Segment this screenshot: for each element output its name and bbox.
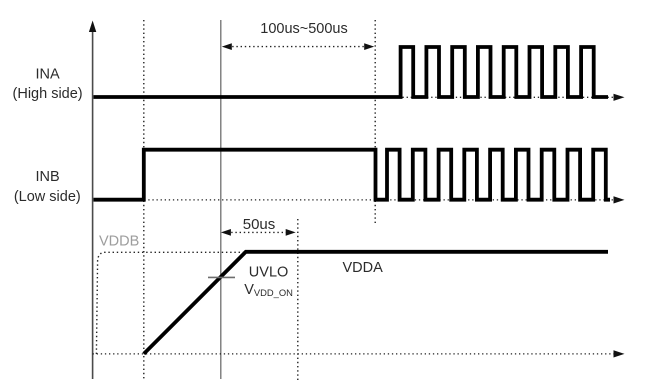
svg-text:100us~500us: 100us~500us: [260, 21, 347, 37]
svg-text:VVDD_ON: VVDD_ON: [244, 282, 293, 298]
svg-text:UVLO: UVLO: [249, 264, 288, 280]
INA baseline (dotted) with right arrow: [95, 94, 625, 101]
svg-text:VDDB: VDDB: [99, 234, 139, 250]
INB baseline (dotted) with right arrow: [95, 196, 625, 203]
INB waveform: [94, 150, 611, 200]
svg-text:INB: INB: [36, 169, 60, 185]
time gridline t2 (dotted, PWM start): [374, 20, 376, 224]
svg-text:VDDA: VDDA: [343, 260, 384, 276]
span arrow 50us (dotted, double-headed): [221, 229, 296, 236]
svg-text:INA: INA: [36, 67, 61, 83]
svg-text:(Low side): (Low side): [14, 189, 81, 205]
INA waveform: [94, 47, 609, 97]
time gridline t1 (thin solid): [220, 20, 222, 379]
svg-text:50us: 50us: [243, 216, 276, 233]
span arrow 100us~500us (dotted, double-headed): [222, 43, 374, 50]
VDDA waveform (ramp + flat): [144, 252, 608, 354]
time gridline t0 (dotted, INB rise / ramp start): [143, 20, 145, 379]
VDDB trace (dotted rise + level): [96, 252, 607, 354]
y-axis: [89, 21, 96, 380]
bottom baseline (dotted) with right arrow: [93, 350, 625, 357]
svg-text:(High side): (High side): [13, 86, 83, 102]
UVLO threshold tick: [208, 276, 235, 278]
time gridline t3 (dotted, 50us end): [297, 219, 299, 381]
